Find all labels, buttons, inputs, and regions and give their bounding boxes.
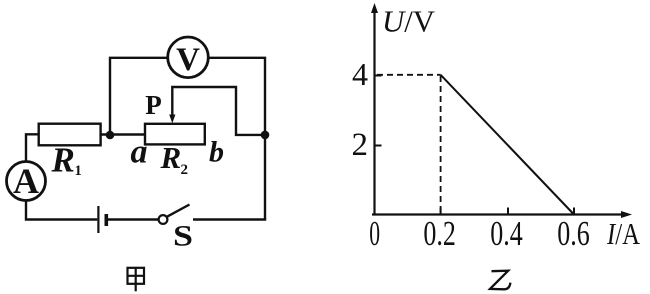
svg-text:S: S — [173, 220, 193, 253]
svg-text:1: 1 — [75, 163, 82, 179]
svg-text:A: A — [13, 161, 39, 201]
svg-text:0: 0 — [369, 214, 380, 253]
svg-text:R: R — [160, 140, 182, 175]
svg-text:2: 2 — [352, 127, 369, 163]
svg-text:I/A: I/A — [606, 216, 640, 251]
svg-text:R: R — [51, 141, 75, 180]
svg-text:a: a — [131, 134, 148, 171]
svg-text:0.2: 0.2 — [423, 214, 456, 253]
svg-text:V: V — [176, 42, 200, 78]
svg-text:4: 4 — [352, 56, 368, 92]
svg-text:b: b — [209, 136, 224, 169]
svg-text:2: 2 — [181, 162, 189, 178]
svg-text:0.4: 0.4 — [490, 214, 523, 253]
svg-text:P: P — [145, 90, 162, 120]
svg-text:U/V: U/V — [382, 4, 436, 39]
svg-text:0.6: 0.6 — [557, 214, 590, 253]
